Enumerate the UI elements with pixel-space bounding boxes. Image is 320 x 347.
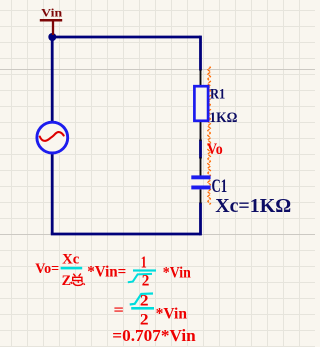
pin: R1 bottom pin [200,121,202,142]
formula row1: fraction bar 1 [61,267,83,270]
formula row1: denominator CJK zong character [71,274,85,286]
svg-text:=0.707*Vin: =0.707*Vin [112,326,196,345]
wire: bottom horizontal rail [51,233,201,236]
svg-text:Xc: Xc [62,252,80,268]
error squiggle along right branch [208,67,211,205]
resistor R1: body rectangle [194,86,208,121]
formula row1: fraction bar 2 [133,269,156,271]
svg-text:Vo: Vo [207,141,223,158]
wire: segment between R1 and C1 (node Vo) [199,140,202,159]
svg-text:R1: R1 [210,86,225,102]
svg-text:Vo=: Vo= [35,261,59,277]
pin: R1 top pin [200,70,202,88]
formula row2: radical sign of sqrt2 numerator [130,294,153,305]
formula row1: radical sign of sqrt2 [128,274,152,282]
wire: right vertical lower segment [199,203,202,236]
capacitor C1: bottom plate [191,186,210,190]
svg-text:C1: C1 [212,176,228,197]
formula row2: fraction bar [131,307,154,310]
svg-text:Xc=1KΩ: Xc=1KΩ [215,195,291,217]
junction node at Vin [48,33,56,41]
wire: left vertical upper (node to source top) [51,37,54,121]
pin: C1 top pin [200,157,202,176]
svg-text:2: 2 [142,273,150,290]
svg-text:1: 1 [141,253,147,272]
svg-text:Z: Z [62,273,72,289]
wire: left vertical lower (source bottom to bottom rail) [51,154,54,234]
AC source V1: circle body [37,122,68,153]
wire: right vertical upper segment [199,36,202,71]
power port Vin: bar [40,19,62,22]
svg-text:*Vin: *Vin [163,265,191,282]
capacitor C1: top plate [191,175,210,179]
svg-text:*Vin: *Vin [156,306,187,323]
pin: C1 bottom pin [200,189,202,203]
svg-text:1KΩ: 1KΩ [209,110,237,126]
wire: top horizontal from Vin node to right branch [52,36,201,39]
svg-text:*Vin=: *Vin= [87,264,126,281]
AC source V1: sine wave [40,132,64,141]
svg-text:Vin: Vin [41,7,63,19]
power port Vin: stem [52,22,54,36]
svg-text:=: = [114,302,124,319]
